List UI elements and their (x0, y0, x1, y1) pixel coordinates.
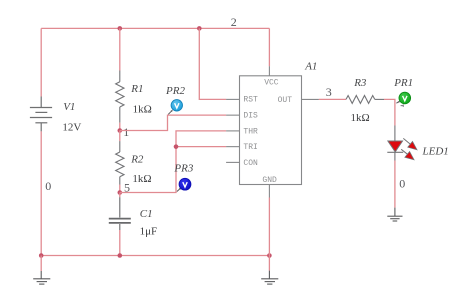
svg-text:0: 0 (45, 179, 51, 193)
svg-text:C1: C1 (140, 208, 153, 220)
svg-text:THR: THR (243, 127, 258, 136)
svg-text:12V: 12V (62, 122, 81, 134)
node TRI junction (174, 144, 179, 149)
battery V1 (30, 97, 52, 132)
wire THR/TRI branch to node 5 (120, 131, 226, 193)
probe PR3 (179, 178, 191, 190)
node junction top R1 (118, 26, 123, 31)
LED arrow 2 (401, 149, 408, 155)
svg-text:A1: A1 (304, 61, 317, 73)
resistor R2 (116, 141, 124, 184)
pin GND stub (268, 185, 270, 198)
wire R2 bottom to node 5 (119, 185, 121, 193)
resistor R3 (346, 96, 384, 104)
pin VCC stub (268, 66, 270, 76)
svg-text:1kΩ: 1kΩ (133, 104, 152, 116)
wire VCC drop (268, 28, 270, 66)
svg-text:PR3: PR3 (173, 163, 193, 175)
probe PR3 tail (177, 189, 180, 192)
svg-text:1kΩ: 1kΩ (351, 112, 370, 124)
wire top-left vertical (battery + to top rail) (40, 28, 42, 96)
pin THR stub (226, 130, 239, 132)
wire node5 to C1 (119, 193, 121, 198)
node 1 junction (118, 128, 123, 133)
svg-text:CON: CON (243, 159, 258, 168)
svg-text:OUT: OUT (278, 96, 293, 105)
svg-text:0: 0 (399, 176, 405, 190)
svg-text:DIS: DIS (243, 112, 258, 121)
ground right (387, 208, 402, 221)
wire left ground stub (40, 256, 42, 272)
pin TRI stub (226, 146, 239, 148)
wire GND pin to bottom rail (268, 198, 270, 256)
LED arrow 1 (403, 138, 411, 144)
svg-text:2: 2 (231, 15, 237, 29)
capacitor C1 (109, 197, 131, 230)
ground middle (261, 271, 278, 285)
LED LED1 (387, 126, 417, 161)
svg-text:1kΩ: 1kΩ (132, 173, 151, 185)
wire RST branch (199, 28, 226, 99)
node 5 junction (118, 190, 123, 195)
wire C1 to bottom rail (119, 230, 121, 256)
wire middle ground stub (268, 256, 270, 271)
resistor R1 (116, 71, 124, 123)
svg-text:LED1: LED1 (422, 146, 449, 158)
wire top rail (41, 27, 269, 29)
probe PR2 (171, 100, 182, 111)
node junction top RST (197, 26, 202, 31)
wire node1 to R2 (119, 131, 121, 142)
probe PR1 (399, 92, 411, 107)
wire bottom rail (41, 255, 269, 257)
svg-text:3: 3 (326, 85, 332, 99)
pin RST stub (226, 98, 239, 100)
node junction bottom left (39, 253, 44, 258)
svg-text:TRI: TRI (243, 143, 257, 152)
svg-text:R1: R1 (130, 83, 143, 95)
probe PR1 tail (396, 102, 399, 104)
pin DIS stub (226, 114, 239, 116)
node junction bottom GND pin (267, 253, 272, 258)
wire OUT to R3 (319, 98, 346, 100)
wire TRI pin branch (176, 146, 226, 148)
wire R3 to LED corner (384, 99, 395, 125)
pin OUT stub (302, 98, 319, 100)
pin CON stub (226, 161, 239, 163)
svg-text:R2: R2 (130, 154, 144, 166)
svg-text:RST: RST (243, 96, 258, 105)
ground left (33, 271, 50, 284)
svg-text:R3: R3 (353, 77, 367, 89)
IC A1 (555 timer) body (226, 66, 319, 197)
svg-text:V1: V1 (63, 101, 75, 113)
wire node1 to DIS pin (120, 115, 226, 130)
svg-text:1: 1 (123, 125, 129, 139)
svg-text:PR2: PR2 (165, 85, 185, 97)
wire R1 feed from top rail (119, 28, 121, 70)
svg-text:GND: GND (262, 176, 277, 185)
wire LED to ground (394, 161, 396, 208)
wire battery to bottom rail (40, 131, 42, 255)
probe PR2 tail (168, 111, 172, 115)
svg-text:PR1: PR1 (393, 77, 413, 89)
svg-text:1μF: 1μF (140, 226, 158, 238)
wire R1 bottom to node 1 (119, 123, 121, 131)
node junction bottom C1 (118, 253, 123, 258)
svg-text:VCC: VCC (264, 79, 279, 88)
